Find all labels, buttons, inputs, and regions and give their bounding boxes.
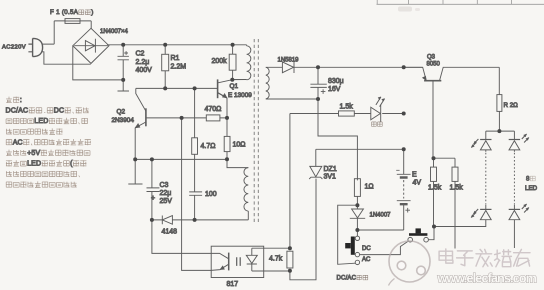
wire indicator row (290, 113, 404, 115)
resistor 470R (206, 115, 220, 121)
svg-text:16V: 16V (328, 86, 341, 93)
svg-text::: : (20, 97, 22, 104)
watermark text elecfans (437, 249, 537, 286)
svg-text:www.elecfans.com: www.elecfans.com (437, 272, 537, 286)
svg-text:4.7k: 4.7k (269, 256, 283, 263)
label power LED (372, 122, 383, 126)
svg-text:1N5819: 1N5819 (278, 58, 300, 64)
capacitor C3 22u 25V (147, 159, 160, 220)
svg-text:LED: LED (525, 185, 538, 192)
resistor 1R (354, 179, 360, 206)
wire DC+ rail (107, 44, 247, 46)
svg-text:1N4007×4: 1N4007×4 (100, 29, 129, 35)
svg-text:4.7Ω: 4.7Ω (201, 143, 216, 150)
svg-text:E: E (412, 172, 417, 179)
wire right contact row to LED chain (434, 220, 486, 226)
LED chain right (509, 131, 529, 248)
resistor 10R (224, 136, 230, 159)
resistor 1.5k right (434, 158, 459, 248)
svg-text:C2: C2 (136, 51, 145, 58)
description text block (6, 97, 91, 188)
paper smudge (398, 7, 420, 12)
wire zener top row to battery top (316, 148, 404, 150)
transformer T1 primary winding (232, 45, 251, 80)
svg-text:DC/AC: DC/AC (6, 108, 29, 115)
svg-text:LED: LED (34, 118, 48, 125)
svg-text:1.5k: 1.5k (428, 185, 442, 192)
svg-text:22μ: 22μ (160, 190, 172, 197)
ground (primary) (118, 80, 130, 91)
wire opto LED pins to 4.7k (252, 248, 290, 271)
svg-text:817: 817 (227, 281, 239, 288)
resistor R 2R (LED dropper) (497, 95, 502, 132)
optocoupler internal LED (246, 248, 257, 271)
svg-text:DC: DC (54, 108, 65, 115)
wire plug top pin to fuse riser (42, 21, 54, 44)
optocoupler 817 box (211, 246, 264, 277)
wire opto top node up to indicator row (289, 114, 291, 249)
capacitor C2 2.2u 400V (118, 45, 129, 80)
svg-text:): ) (91, 9, 93, 16)
resistor 1.5k left (431, 158, 437, 226)
optocoupler coupling arrows (237, 257, 241, 266)
svg-text:3V1: 3V1 (324, 174, 337, 181)
zener DZ1 3V1 (309, 149, 322, 179)
svg-text:1N4007: 1N4007 (370, 213, 392, 219)
wire Q1 base rail (136, 87, 218, 89)
svg-text:AC: AC (13, 139, 23, 146)
svg-text:Q1: Q1 (230, 83, 239, 90)
capacitor 830u 16V (310, 67, 326, 99)
wire 1R bottom junction row (338, 205, 358, 264)
transistor Q2 2N3904 (135, 88, 146, 159)
capacitor 100 (189, 192, 202, 220)
svg-text:F 1 (0.5A: F 1 (0.5A (50, 9, 79, 16)
wire mid rail (135, 158, 227, 160)
wire Q3 collector down to R (498, 67, 500, 94)
svg-text:Q3: Q3 (427, 55, 436, 61)
resistor 4.7R (192, 88, 198, 191)
transformer T1 feedback winding (227, 159, 248, 220)
svg-text:1.5k: 1.5k (340, 104, 354, 111)
wire bridge left corner to bottom rail (73, 46, 123, 80)
transistor Q1 E13009 (218, 79, 233, 98)
watermark logo circle (389, 241, 431, 286)
diode 1N4007 (charge) (350, 205, 365, 230)
svg-text:4148: 4148 (162, 229, 178, 236)
pushbutton AN (408, 227, 434, 243)
resistor 1.5k (indicator) (339, 111, 355, 116)
transformer T1 secondary winding (266, 67, 318, 99)
svg-text:1.5k: 1.5k (450, 185, 464, 192)
wire Q2 base node down to optocoupler emitter (182, 118, 212, 271)
wire fuse to bridge top (90, 21, 92, 29)
svg-text:1Ω: 1Ω (365, 184, 374, 191)
svg-text:8: 8 (526, 176, 530, 183)
plug P (AC input) (28, 38, 42, 56)
svg-text:4V: 4V (413, 180, 422, 187)
switch DC/AC (345, 230, 359, 265)
diode 1N5819 (282, 62, 318, 73)
svg-text:2.2μ: 2.2μ (136, 59, 150, 66)
diode 1N4148 (152, 216, 248, 225)
LED power indicator (371, 97, 385, 122)
wire switch DC throw to pushbutton (360, 241, 408, 254)
svg-text:AC: AC (362, 257, 371, 263)
transformer core (254, 39, 258, 222)
svg-text:+: + (151, 195, 155, 202)
wire C3 node to optocoupler collector (152, 220, 211, 254)
wire Q1 emitter down (226, 98, 228, 136)
table border line top right (377, 0, 544, 4)
svg-text:830μ: 830μ (328, 78, 344, 85)
svg-text:2N3904: 2N3904 (112, 117, 135, 124)
svg-text:2.2M: 2.2M (171, 63, 187, 70)
svg-text:DC: DC (362, 246, 371, 252)
resistor 200k (229, 45, 236, 80)
wire diode bottom to battery bottom (357, 229, 403, 231)
resistor 4.7k (287, 251, 293, 268)
svg-text:C3: C3 (160, 182, 169, 189)
svg-text:100: 100 (205, 191, 217, 198)
svg-text:R 2Ω: R 2Ω (504, 102, 519, 109)
ground (mid, under Q2 emitter) (128, 159, 142, 184)
wire Q1 collector to primary bottom (232, 79, 246, 81)
bridge rectifier 1N4007x4 (73, 28, 109, 63)
svg-text:10Ω: 10Ω (233, 142, 246, 149)
svg-text:+5V: +5V (27, 150, 40, 157)
svg-text:LED: LED (27, 161, 41, 168)
resistor R1 2.2M (162, 45, 169, 89)
svg-text:AC220V: AC220V (2, 45, 26, 51)
svg-text:470Ω: 470Ω (205, 106, 222, 113)
wire +5V rail (318, 66, 423, 68)
svg-text:8050: 8050 (427, 62, 441, 68)
wire LED chains top row (486, 130, 515, 132)
svg-text:200k: 200k (212, 58, 228, 65)
transistor Q3 8050 (404, 67, 500, 158)
wire Q2 base row (146, 117, 227, 119)
optocoupler phototransistor (211, 253, 229, 271)
svg-text:E 13009: E 13009 (228, 92, 252, 99)
svg-text:DZ1: DZ1 (324, 166, 337, 173)
battery E 4V (396, 149, 410, 230)
svg-text:Q2: Q2 (117, 109, 126, 116)
svg-text:R1: R1 (171, 55, 180, 62)
svg-text:DC/AC: DC/AC (337, 276, 357, 282)
fuse F1 (54, 19, 91, 24)
svg-text:400V: 400V (136, 67, 153, 74)
svg-text:25V: 25V (160, 198, 173, 205)
wire opto bottom node to zener riser (290, 179, 316, 280)
wire secondary minus down to 1R (318, 99, 357, 180)
wire plug bottom pin to bridge bottom (42, 52, 91, 64)
LED chain left (471, 131, 491, 220)
